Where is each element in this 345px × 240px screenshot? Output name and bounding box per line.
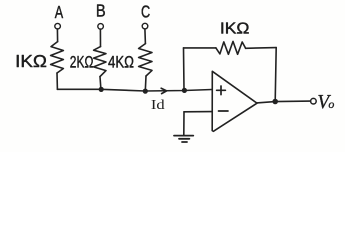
wire xyxy=(144,76,147,91)
svg-text:IKΩ: IKΩ xyxy=(220,21,250,38)
value label 2KΩ (R2) xyxy=(70,52,94,71)
terminal B xyxy=(98,24,104,30)
current label Id xyxy=(151,98,165,113)
svg-text:C: C xyxy=(141,1,150,21)
svg-text:A: A xyxy=(55,2,64,22)
wire xyxy=(56,29,58,42)
resistor R1 xyxy=(51,42,64,73)
wire xyxy=(99,77,102,90)
op-amp U1 xyxy=(212,71,257,131)
junction dot (summing node) xyxy=(182,88,187,93)
node C xyxy=(141,1,150,21)
op-amp non-inverting input marker xyxy=(217,86,226,95)
wire ground riser xyxy=(183,112,185,135)
terminal Vo xyxy=(311,98,317,104)
node B xyxy=(96,1,106,21)
ground xyxy=(174,136,193,142)
op-amp inverting input marker xyxy=(219,110,229,112)
current arrow Id xyxy=(161,88,166,93)
svg-text:o: o xyxy=(328,97,334,111)
junction dot (feedback to output) xyxy=(272,99,278,105)
value label 1KΩ (R1) xyxy=(15,51,47,71)
value label 4KΩ (R3) xyxy=(108,52,134,71)
wire xyxy=(56,73,58,89)
wire xyxy=(246,47,277,50)
svg-text:IKΩ: IKΩ xyxy=(15,51,47,71)
svg-text:Id: Id xyxy=(151,98,165,113)
wire xyxy=(144,29,147,44)
wire output xyxy=(257,101,311,103)
svg-text:B: B xyxy=(96,1,106,21)
resistor Rf xyxy=(216,41,246,54)
junction dot (R2 to bus) xyxy=(99,87,104,92)
svg-text:2KΩ: 2KΩ xyxy=(70,52,94,71)
terminal C xyxy=(142,23,148,29)
resistor R3 xyxy=(139,44,152,76)
junction dot (R3 to bus) xyxy=(143,89,148,94)
wire xyxy=(99,29,101,46)
resistor R2 xyxy=(94,47,106,77)
value label 1KΩ (feedback) xyxy=(220,21,250,38)
svg-text:4KΩ: 4KΩ xyxy=(108,52,134,71)
wire inverting input xyxy=(184,111,212,113)
wire xyxy=(184,47,216,49)
wire feedback left riser xyxy=(183,48,186,90)
output label Vo xyxy=(317,91,334,113)
wire feedback right drop xyxy=(275,48,276,102)
node A xyxy=(55,2,64,22)
terminal A xyxy=(55,23,61,29)
wire summing bus xyxy=(57,89,212,91)
